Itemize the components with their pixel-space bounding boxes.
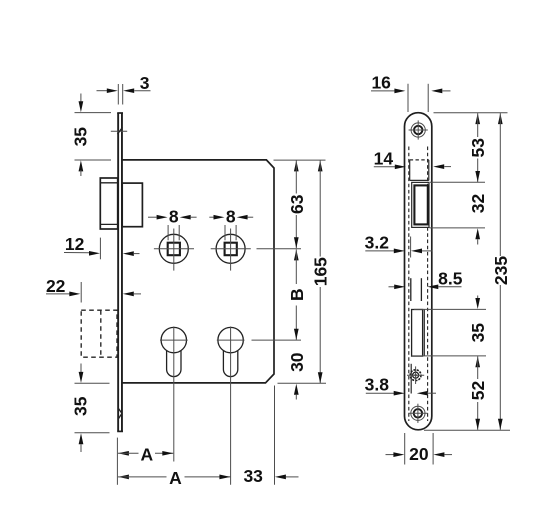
svg-text:16: 16 — [371, 73, 391, 93]
dimension 35 (deadbolt window) — [468, 296, 488, 368]
svg-text:14: 14 — [374, 148, 394, 168]
hidden case edge left (dashed) — [408, 147, 410, 422]
follower hole 2 — [211, 229, 251, 271]
dimension 3.8 — [365, 374, 436, 395]
svg-text:20: 20 — [409, 444, 429, 464]
extension lines bottom (A dims) — [117, 386, 274, 485]
svg-text:52: 52 — [468, 381, 488, 401]
svg-text:35: 35 — [71, 127, 91, 147]
follower hole 1 — [154, 229, 194, 271]
svg-text:33: 33 — [243, 466, 263, 486]
svg-text:30: 30 — [287, 352, 307, 372]
svg-text:22: 22 — [46, 276, 66, 296]
svg-text:8.5: 8.5 — [438, 268, 463, 288]
dimension 14 (case width) — [374, 148, 451, 169]
svg-text:63: 63 — [287, 194, 307, 214]
faceplate break mark top — [111, 127, 127, 134]
faceplate front outline — [405, 113, 432, 430]
dimension 8 (follower square 1) — [148, 207, 197, 241]
svg-text:12: 12 — [65, 234, 85, 254]
fixing screw hole (3.8) — [407, 366, 424, 384]
svg-text:32: 32 — [468, 194, 488, 214]
extension line cylinder center right — [252, 339, 302, 341]
faceplate break mark bottom — [118, 408, 122, 420]
dimension 235 — [491, 113, 511, 430]
extension line plate top right — [434, 112, 508, 114]
latch window — [410, 160, 429, 181]
dimension 8.5 — [389, 268, 463, 289]
svg-text:53: 53 — [468, 138, 488, 158]
dimension 20 (plate width bottom) — [386, 433, 453, 465]
dimension 63 — [287, 160, 307, 248]
dimension A (first) — [118, 444, 173, 464]
cylinder hole 1 (euro profile) — [160, 327, 188, 462]
bottom screw hole — [408, 404, 427, 423]
latch bolt front — [412, 182, 429, 227]
extension line case top right — [274, 159, 326, 161]
svg-text:8: 8 — [169, 207, 179, 227]
cylinder hole 2 (euro profile) — [217, 327, 245, 485]
dimension 35 bottom — [71, 364, 110, 453]
svg-text:B: B — [287, 288, 307, 301]
latch bolt body in case — [122, 183, 142, 227]
svg-text:A: A — [140, 444, 153, 464]
extension line latch bottom right — [430, 227, 486, 229]
dimension A (second) — [118, 468, 230, 488]
deadbolt dashed outline — [81, 310, 117, 357]
extension line deadbolt window bottom right — [412, 355, 486, 357]
follower slot (8.5) — [411, 278, 422, 301]
extension line case bottom right — [278, 382, 327, 384]
latch bolt head — [100, 178, 117, 229]
svg-text:3.2: 3.2 — [365, 232, 390, 252]
extension line latch top right — [430, 181, 485, 183]
hidden case edge right (dashed) — [427, 147, 429, 422]
svg-text:8: 8 — [226, 207, 236, 227]
dimension 22 (deadbolt throw) — [46, 276, 141, 302]
dimension B — [287, 249, 307, 339]
dimension 12 (latch protrusion) — [64, 234, 140, 259]
dimension 52 — [468, 356, 488, 430]
svg-text:3: 3 — [140, 73, 150, 93]
deadbolt window — [412, 310, 425, 357]
dimension 8 (follower square 2) — [209, 207, 253, 241]
dimension 32 — [468, 194, 488, 245]
svg-text:35: 35 — [468, 323, 488, 343]
dimension 53 — [468, 113, 488, 182]
extension line follower center right — [257, 248, 302, 250]
dimension 165 — [311, 160, 331, 383]
faceplate side profile — [117, 113, 123, 431]
dimension 30 — [287, 352, 307, 399]
lock case outline — [122, 160, 274, 383]
svg-text:235: 235 — [491, 256, 511, 285]
svg-text:3.8: 3.8 — [365, 374, 390, 394]
dimension 16 (plate width) — [371, 73, 451, 112]
dimension 33 — [243, 466, 298, 486]
dimension 35 top — [71, 94, 111, 177]
extension line deadbolt window top right — [414, 308, 486, 310]
extension line case bottom left — [75, 382, 110, 384]
top screw hole — [409, 120, 428, 139]
dimension 3.2 — [365, 232, 433, 257]
plate inner edge line — [410, 364, 412, 394]
svg-text:A: A — [169, 468, 182, 488]
dimension 3 (faceplate thickness) — [97, 73, 151, 104]
extension line plate bottom right — [424, 429, 510, 431]
svg-text:165: 165 — [311, 257, 331, 286]
svg-text:35: 35 — [71, 396, 91, 416]
